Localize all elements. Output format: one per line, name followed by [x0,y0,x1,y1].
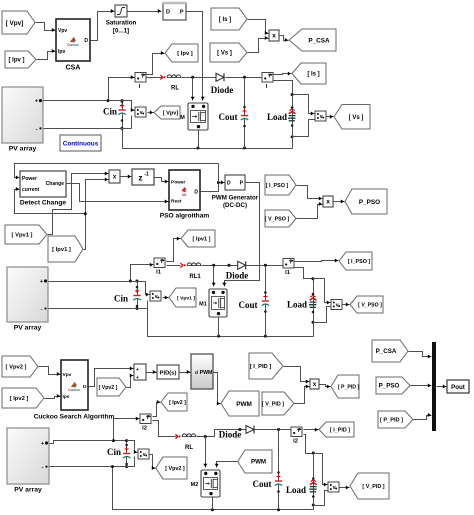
svg-text:Vpv: Vpv [58,28,67,34]
svg-text:P_PSO: P_PSO [379,383,400,390]
svg-text:Diode: Diode [219,430,242,440]
svg-text:D: D [84,38,88,44]
junction load1 bottom [291,135,294,138]
junction Cout2 top [264,264,267,267]
MOSFET M [180,103,208,130]
product block (I_PSO x V_PSO) [323,196,333,207]
svg-text:[ Ipv ]: [ Ipv ] [177,51,193,57]
svg-text:v: v [336,302,339,308]
junction Cin2 bottom [136,307,139,310]
svg-text:Ipv: Ipv [63,394,70,400]
wire load2 tap to V2b + [314,279,331,305]
wire product to P_CSA goto [280,36,289,43]
wire [P_PID] to mux [414,413,432,420]
wire CSA2 D to sum [89,367,134,387]
svg-text:current: current [22,187,40,193]
svg-text:+: + [136,375,139,381]
wire V1 minus to bottom rail [131,116,133,129]
load resistor Load3 [286,454,317,510]
wire P_CSA to mux [409,352,432,359]
wire bottom rail row1 [123,129,293,149]
current measurement I [135,73,146,91]
svg-text:[ Vpv2 ]: [ Vpv2 ] [99,385,118,391]
wire M2 drain up [203,437,207,468]
svg-text:PWM: PWM [236,401,252,408]
MOSFET M2 [191,470,220,497]
junction load1 top [291,93,294,96]
junction current tap [84,212,87,215]
wire current tap to Detect Change [15,187,86,214]
wire PID to PWM3 [180,370,191,374]
Goto tag [V_PID] [350,473,389,499]
wire [Is] to product [248,20,269,36]
svg-text:Cin: Cin [107,447,121,457]
svg-text:P: P [180,9,184,15]
PWM Generator (DC-DC) block [212,175,259,209]
svg-text:D: D [194,190,198,196]
wire bottom rail row3 [113,467,314,510]
wire I out to load branch [274,81,293,149]
svg-text:I1: I1 [285,270,291,276]
wire I1b to load branch [295,268,314,279]
svg-text:Ipv: Ipv [58,49,65,55]
junction node diode2 in [228,264,231,267]
wire P_PSO to mux [411,384,432,388]
wire product3 to P_PSO goto [334,200,345,204]
svg-text:[ Vpv2 ]: [ Vpv2 ] [165,466,185,472]
PV array block 1 [2,87,43,153]
svg-text:[ Ipv2 ]: [ Ipv2 ] [10,396,29,402]
wire V2b to [V_PSO] goto [343,303,350,307]
svg-text:Continuous: Continuous [63,141,99,148]
svg-text:M2: M2 [191,482,199,488]
svg-text:RL: RL [171,86,179,92]
voltage measurement V1 [135,107,146,117]
svg-text:PV array: PV array [14,325,42,332]
svg-text:-: - [36,126,38,132]
svg-text:v: v [143,452,146,458]
svg-text:v: v [140,110,143,116]
capacitor Cin3 [107,441,130,467]
From tag P_PSO [376,377,410,394]
Goto tag [Vpv] [154,106,180,119]
From tag [Vpv2] [2,356,38,377]
wire PV3 + up to I2 [114,417,140,441]
wire V3 minus down [127,457,135,467]
wire PV1 + output [44,75,135,100]
svg-text:Load: Load [267,112,287,122]
capacitor Cout1 [218,78,248,149]
svg-text:Saturation: Saturation [106,20,137,27]
inductor RL1 [180,263,201,280]
wire product2 to unit delay [121,175,132,179]
svg-text:D: D [227,181,231,187]
wire mux to Pout [437,385,447,389]
Goto tag [P_PID] [331,375,359,398]
From tag [Vpv1] [5,225,47,244]
wire sum to PID [147,370,157,374]
product block (Is x Vs) [269,30,279,41]
product block (Vpv1 x Ipv1) [109,170,120,183]
svg-text:[ V_PID ]: [ V_PID ] [362,484,384,490]
svg-text:v: v [155,294,158,300]
Goto tag [V_PSO] [350,296,383,313]
voltage measurement V3b [328,482,339,492]
svg-text:PWM: PWM [200,370,213,376]
svg-text:M: M [180,115,185,121]
svg-text:Diode: Diode [211,85,234,95]
junction Cout3 top [277,428,280,431]
From tag [Vpv2] reference [97,378,126,396]
wire [I_PSO] to product3 [297,186,323,201]
junction load2 bottom [312,321,315,324]
wire load3 tap to V3b + [314,454,328,487]
wire product4 to [P_PID] goto [320,385,331,389]
wire I2 to RL3 [153,421,177,437]
junction node Cout1 top [243,76,246,79]
Goto tag [Ipv] [165,44,198,62]
svg-text:PWM Generator: PWM Generator [212,195,259,202]
svg-text:PV array: PV array [14,487,42,494]
junction node M1 drain [212,264,215,267]
svg-text:[ Ipv1 ]: [ Ipv1 ] [52,247,71,253]
wire [Vpv2]b to sum [127,374,134,388]
diode D1 [211,73,234,95]
svg-text:v: v [333,485,336,491]
svg-text:P_CSA: P_CSA [308,37,330,44]
wire M2 source down [212,498,214,510]
wire V2 to [Vpv1] goto [163,296,169,300]
junction PV3- drop [111,465,114,468]
wire Cin top to voltage measurement [109,101,135,113]
svg-text:+: + [35,99,38,105]
Goto tag P_CSA [289,29,336,51]
wire PWM P output down to MOSFET M gate [187,12,205,101]
capacitor Cout3 [252,430,282,510]
svg-text:[ Ipv1 ]: [ Ipv1 ] [192,237,210,243]
wire unit delay to PSO Power [155,178,169,184]
junction node PV1+ [107,99,110,102]
voltage measurement V3 [138,449,149,459]
wire CSA D output to Saturation [91,9,115,41]
wire V3b to [V_PID] goto [340,486,350,490]
svg-text:-1: -1 [144,172,149,178]
wire [V_PSO] to product3 [297,202,323,219]
svg-text:PID(s): PID(s) [160,371,177,377]
svg-text:Cout: Cout [252,479,271,489]
wire M1 drain up [212,266,216,287]
wire I to RL [147,77,163,79]
wire [Ipv] to CSA Ipv input [37,49,56,60]
junction load3 bottom [312,504,315,507]
From tag [P_PID] [378,411,413,428]
capacitor Cin2 [114,282,141,309]
From tag P_CSA [372,340,408,362]
wire I2 meas up to [Ipv2] goto [153,400,161,417]
svg-text:Rest: Rest [171,199,182,205]
svg-text:Pout: Pout [451,384,465,391]
wire diode3 out [255,429,291,431]
wire V3 to [Vpv2] goto [150,455,156,471]
svg-text:[0...1]: [0...1] [113,28,129,35]
subsystem Cuckoo Search Algorithm block [34,360,115,421]
junction load2 top [312,277,315,280]
svg-text:RL: RL [185,445,193,451]
wire PV1 - rail [44,128,132,130]
junction Cin2 top [136,280,139,283]
svg-text:z: z [138,173,142,183]
svg-text:CSA: CSA [66,65,81,72]
Goto tag [Ipv1] [181,230,215,247]
svg-text:I1: I1 [156,270,162,276]
junction Cout2 bottom [264,335,267,338]
svg-text:Cout: Cout [218,112,237,122]
junction M1 source rail [217,335,220,338]
svg-text:Diode: Diode [226,271,249,281]
junction diode3 in [238,428,241,431]
voltage measurement V2b [331,300,342,310]
junction Cout1 bottom [243,147,246,150]
svg-text:[ Vpv]: [ Vpv] [163,111,179,117]
svg-text:PWM: PWM [251,459,266,466]
wire I1 meas up to [Ipv1] goto [167,237,181,262]
wire diode to I2 meas [226,77,262,79]
wire Cin2 top to V meas [131,282,150,297]
svg-text:[ Vpv1 ]: [ Vpv1 ] [177,295,195,301]
wire [Vpv1] to product2 [48,172,109,235]
wire PWM3 output to PWM goto [214,373,221,406]
svg-text:PV array: PV array [9,146,37,153]
From tag [Ipv2] [2,388,44,408]
wire M2 gate from PWM from-tag [215,462,238,468]
svg-text:[ Is ]: [ Is ] [219,17,231,23]
svg-text:PSO algroitham: PSO algroitham [160,213,210,220]
svg-text:[ Vpv2 ]: [ Vpv2 ] [6,365,27,371]
PV array block 2 [7,267,48,332]
Goto tag [Ipv2] [161,393,187,411]
svg-text:+: + [41,441,44,447]
subsystem CSA (Cuckoo Search Algorithm) block [56,19,90,72]
svg-text:D: D [166,9,170,15]
wire [V_PID] to product4 [295,385,310,404]
sum block [134,364,146,381]
From tag [Ipv] [5,51,36,68]
wire Cin3 top to V3 meas [127,441,138,455]
wire feedback vertical to power line [218,164,220,183]
svg-text:[ I_PID ]: [ I_PID ] [250,364,272,370]
saturation block [0...1] [106,5,137,35]
wire M drain up [191,78,195,101]
load resistor Load1 [267,95,296,149]
Goto tag [Vpv1] [169,288,196,307]
From tag [Ipv1] [48,236,83,262]
wire Vs meas to [Vs] goto [327,115,334,119]
inductor RL [160,75,181,92]
PV array block 3 [7,428,49,494]
svg-text:x: x [313,381,317,388]
wire I1 to RL1 [167,265,181,267]
powergui block Continuous [60,135,101,151]
svg-text:[ I_PSO ]: [ I_PSO ] [348,259,371,265]
svg-text:Cuckoo: Cuckoo [67,43,79,47]
wire [Ipv2] to CSA2 Ipv [45,394,61,399]
svg-text:Power: Power [171,180,186,186]
svg-text:(DC-DC): (DC-DC) [223,202,247,209]
From tag [V_PID] [262,392,294,415]
wire bottom rail row2 [148,309,314,337]
Goto tag PWM [221,391,259,416]
svg-text:Cin: Cin [103,107,117,117]
From tag [Vs] [210,43,247,62]
svg-text:x: x [326,199,330,206]
svg-text:[ Ipv ]: [ Ipv ] [9,58,25,64]
Goto tag [Vs] [334,105,370,130]
wire RL3 to diode3 [197,430,246,437]
inductor RL row3 [175,434,196,451]
voltage measurement Vs [315,111,326,121]
load resistor Load2 [287,279,316,337]
wire [Vpv2] to CSA2 Vpv [39,367,61,377]
wire PV3 - rail [50,466,127,468]
wire V2 minus down [147,301,149,309]
Goto tag P_PSO [345,189,387,214]
wire [Vs] to product [248,36,269,53]
svg-text:[ Ipv2 ]: [ Ipv2 ] [169,400,186,406]
svg-text:RL1: RL1 [189,274,201,280]
capacitor Cin [103,100,126,128]
PWM subsystem block (PID loop) [191,354,213,389]
product block (I_PID x V_PID) [310,379,319,389]
svg-text:[ V_PID ]: [ V_PID ] [262,401,284,407]
junction node PV3+ [112,439,115,442]
MOSFET M1 [199,289,227,317]
Goto tag [Is] [292,63,326,84]
wire I out to [Is] goto [274,72,292,76]
current measurement I1 [154,258,165,276]
svg-text:Load: Load [287,300,307,310]
wire load1 tap to V+ [293,95,315,116]
junction load3 top [312,452,315,455]
svg-text:x: x [113,174,117,181]
svg-text:Change: Change [46,181,65,187]
svg-text:M1: M1 [199,302,207,308]
svg-text:-: - [41,307,43,313]
svg-text:[ Vpv1 ]: [ Vpv1 ] [12,233,33,239]
svg-text:d: d [195,370,198,376]
junction Cin bottom [121,127,124,130]
junction M2 source rail [211,508,214,511]
svg-text:[ Vpv]: [ Vpv] [6,20,24,27]
wire Saturation to PWM D input [128,9,162,13]
svg-text:[ P_PID ]: [ P_PID ] [380,418,403,424]
From tag [Is] [211,8,247,30]
svg-text:I2: I2 [142,426,147,432]
wire I2b meas to [I_PID] goto [304,428,319,432]
capacitor Cout2 [238,266,269,337]
Goto tag [Vpv2] [156,457,187,479]
wire RL1 to diode2 [202,265,238,267]
junction Cin top [121,99,124,102]
wire I2b to load branch [304,435,314,454]
diode D3 [219,426,254,440]
wire [I_PID] to product4 [284,367,310,384]
svg-text:v: v [320,114,323,120]
From tag [I_PSO] [265,175,296,195]
wire [Ipv1] to product2 [84,178,109,250]
current measurement I2 out [291,427,302,445]
svg-text:Vpv: Vpv [63,372,72,378]
svg-text:D: D [83,384,87,390]
wire load1 tap to V- [293,120,315,137]
junction node M2 drain [204,435,207,438]
wire PSO D to PWM Generator D [201,181,225,192]
junction Cout3 bottom [277,508,280,511]
junction Cin3 bottom [125,465,128,468]
From tag PWM (flipped) [238,450,272,473]
svg-text:-: - [42,465,44,471]
svg-text:Cuckoo Search Algorithm: Cuckoo Search Algorithm [34,414,115,421]
svg-text:x: x [272,33,276,40]
svg-text:+: + [136,367,139,373]
svg-text:Load: Load [286,485,306,495]
junction Cin3 top [125,439,128,442]
Goto tag [I_PID] [319,422,354,437]
wire diode2 to I1 out [246,265,283,267]
junction PSO D feedback [217,181,220,184]
display block Pout [447,380,469,393]
junction node PV2+ [129,280,132,283]
Goto tag [I_PSO] [339,252,372,270]
junction node M drain [191,76,194,79]
wire [Vpv] to CSA Vpv input [36,23,56,33]
From tag [V_PSO] [265,210,296,227]
wire PV2 + output [49,263,154,282]
current measurement I1 out [283,259,294,277]
wire M1 source down [218,318,220,337]
svg-text:[ V_PSO ]: [ V_PSO ] [358,302,382,308]
mux block [432,342,436,431]
wire RL to diode [182,77,216,79]
PWM generator block (D-P) of CSA system [163,3,186,20]
wire I1b meas to [I_PSO] goto [295,259,339,263]
wire load3 tap to V3b - [314,491,328,506]
svg-text:[ Vs ]: [ Vs ] [349,115,364,121]
svg-text:[ Is ]: [ Is ] [307,72,319,78]
wire PV3 + output [50,441,127,444]
svg-text:P_CSA: P_CSA [376,348,397,355]
wire V1 to [Vpv] goto [148,111,154,115]
svg-text:I2: I2 [293,439,298,445]
svg-text:Power: Power [22,176,37,182]
svg-text:Cout: Cout [238,300,257,310]
svg-text:ML: ML [182,193,187,197]
Detect Change block [20,171,66,207]
svg-text:[ Vs ]: [ Vs ] [217,51,232,57]
wire PV2 - rail [49,308,148,310]
svg-text:[ I_PSO ]: [ I_PSO ] [266,183,289,189]
current measurement I2 [140,414,151,432]
svg-text:[ I_PID ]: [ I_PID ] [330,427,350,433]
unit delay block z-1 [132,169,154,185]
From tag [Vpv] [2,11,35,34]
wire I measurement up to [Ipv] goto [147,51,165,75]
PID controller block PID(s) [157,365,179,379]
svg-text:+: + [40,279,43,285]
current measurement I out1 [262,73,273,91]
svg-text:Detect Change: Detect Change [20,200,66,207]
svg-text:Cuckoo: Cuckoo [68,388,80,392]
svg-text:[ P_PID ]: [ P_PID ] [338,384,360,390]
